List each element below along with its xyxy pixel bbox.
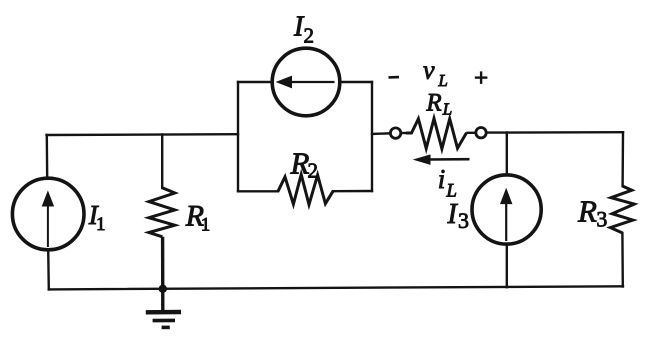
- svg-text:i: i: [438, 164, 446, 194]
- svg-text:2: 2: [304, 24, 315, 48]
- resistor R2: [278, 175, 333, 205]
- arrow iL (points left): [415, 155, 470, 164]
- node: RL right terminal: [476, 128, 486, 138]
- wire bottom rail: [49, 286, 623, 289]
- wire right vertical upper: [621, 132, 624, 186]
- svg-text:R: R: [425, 90, 441, 117]
- svg-text:L: L: [442, 100, 452, 119]
- svg-text:1: 1: [96, 214, 106, 235]
- wire I3 bottom lead: [506, 244, 508, 287]
- label plus (vL polarity): [475, 71, 488, 84]
- wire left vertical lower: [47, 250, 50, 290]
- wire R1 thick bottom lead: [161, 237, 165, 311]
- wire box bottom right segment: [333, 190, 372, 193]
- resistor R1: [149, 188, 175, 237]
- label minus (vL polarity): [389, 76, 400, 79]
- wire R1 top lead: [161, 135, 163, 189]
- svg-text:L: L: [437, 71, 447, 90]
- wire box bottom left segment: [238, 190, 278, 192]
- wire RL left lead: [401, 132, 408, 134]
- ground: [146, 312, 181, 327]
- wire top-left rail: [47, 133, 239, 136]
- resistor RL: [406, 119, 467, 149]
- wire box to RL left node: [372, 132, 390, 135]
- resistor R3: [610, 186, 634, 233]
- wire box right vertical: [371, 82, 373, 191]
- current source I3: [472, 175, 541, 244]
- node: RL left terminal: [390, 128, 400, 138]
- wire RL right lead: [468, 132, 476, 134]
- svg-text:v: v: [423, 56, 435, 85]
- wire I3 top lead: [506, 133, 508, 176]
- current source I2: [272, 48, 340, 116]
- svg-text:L: L: [445, 181, 457, 202]
- svg-text:I: I: [447, 199, 459, 230]
- svg-text:3: 3: [596, 206, 607, 231]
- wire I2 right lead: [340, 81, 372, 83]
- wire left vertical upper: [46, 135, 49, 179]
- svg-text:3: 3: [458, 208, 469, 233]
- junction dot R1/bottom rail: [159, 285, 167, 293]
- wire right vertical lower: [621, 233, 624, 287]
- svg-text:R: R: [290, 146, 310, 181]
- svg-text:R: R: [577, 193, 597, 228]
- svg-text:2: 2: [308, 159, 319, 183]
- wire box left vertical: [237, 82, 239, 191]
- svg-text:1: 1: [201, 214, 211, 235]
- wire I2 left lead: [238, 81, 272, 83]
- wire right top rail: [487, 131, 624, 134]
- current source I1: [12, 178, 84, 250]
